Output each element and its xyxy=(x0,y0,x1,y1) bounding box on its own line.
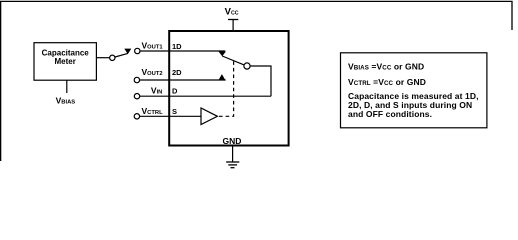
svg-text:2D: 2D xyxy=(172,68,182,77)
svg-text:VOUT2: VOUT2 xyxy=(142,67,163,77)
svg-text:Meter: Meter xyxy=(55,57,76,66)
svg-text:VIN: VIN xyxy=(151,85,162,95)
svg-text:VCTRL =VCC or GND: VCTRL =VCC or GND xyxy=(348,77,426,87)
svg-text:S: S xyxy=(172,107,177,116)
svg-text:VCTRL: VCTRL xyxy=(142,106,164,116)
svg-text:1D: 1D xyxy=(172,42,182,51)
svg-text:GND: GND xyxy=(223,136,242,146)
svg-text:D: D xyxy=(172,86,178,95)
svg-text:VOUT1: VOUT1 xyxy=(142,41,164,51)
svg-text:VCC: VCC xyxy=(225,7,239,18)
svg-text:and OFF conditions.: and OFF conditions. xyxy=(348,109,432,119)
svg-text:VBIAS: VBIAS xyxy=(56,96,76,106)
svg-text:VBIAS =VCC or GND: VBIAS =VCC or GND xyxy=(348,62,424,72)
